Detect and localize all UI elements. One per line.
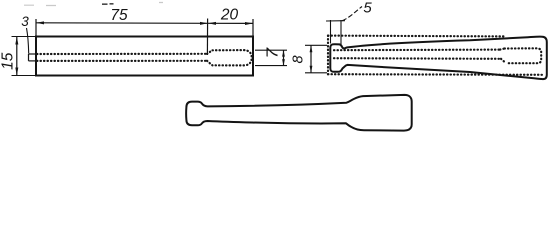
left view: hidden shaft line bottom [37, 60, 207, 62]
dimension 75/20: middle extension line [206, 19, 208, 56]
svg-text:8: 8 [291, 55, 307, 63]
dimension 20: dimension line [208, 22, 253, 24]
right view: hidden shaft line top [334, 48, 500, 51]
dimension 20: right extension line [252, 19, 254, 37]
dimension 8: dimension line [310, 45, 312, 73]
dimension 7: top arrowhead [282, 50, 285, 56]
dimension 5: dimension line [326, 20, 345, 22]
svg-text:20: 20 [220, 7, 239, 24]
dimension 3: leader line [27, 28, 29, 54]
right view: hidden knob flare bottom [501, 59, 506, 63]
dimension 7: top extension line [255, 49, 287, 51]
dimension 3: bottom tick [29, 60, 37, 62]
left view: hidden knob stadium [213, 50, 252, 65]
dimension 75: left arrowhead [36, 21, 44, 24]
dimension 75: left extension line (stock edge extended) [35, 19, 37, 37]
dimension 75: right arrowhead [200, 22, 208, 25]
dimension 7: bottom arrowhead [282, 59, 285, 65]
right view: hidden shaft line bottom [334, 57, 501, 60]
dimension 8: top arrowhead [310, 45, 313, 52]
right view: hidden knob flare top [500, 49, 505, 50]
dimension 15: bottom arrowhead [15, 68, 18, 76]
dimension 3: top tick [29, 53, 37, 55]
left view: hidden knob flare bottom [207, 61, 213, 66]
dimension 8: bottom arrowhead [310, 66, 313, 73]
scan artifact specks top [102, 3, 114, 5]
dimension 15: top extension line [12, 36, 37, 38]
dimension 5: right extension line [340, 20, 342, 46]
dimension 15: bottom extension line [12, 75, 37, 77]
right view: knob and taper solid outline [330, 37, 547, 79]
finished part outline [186, 95, 412, 131]
right view: stock hidden outline top [328, 34, 505, 37]
right view: stock hidden outline bottom [328, 73, 543, 76]
left view: stock bar outline [36, 37, 253, 76]
svg-text:3: 3 [21, 14, 29, 29]
dimension 7: dimension line [283, 50, 285, 65]
dimension 5: leader line [342, 7, 362, 21]
dimension 15: top arrowhead [15, 37, 18, 45]
dimension 8: top extension line [305, 44, 327, 46]
right view: stock hidden outline left [327, 36, 329, 75]
dimension 15: dimension line [16, 37, 18, 76]
left view: hidden shaft line top [37, 53, 207, 55]
svg-text:15: 15 [0, 52, 17, 70]
dimension 20: left arrowhead [208, 22, 216, 25]
svg-text:5: 5 [363, 0, 372, 17]
dimension 75: dimension line [36, 22, 208, 25]
left view: hidden knob flare top [207, 50, 213, 54]
svg-text:7: 7 [263, 47, 281, 59]
dimension 7: bottom extension line [255, 65, 287, 67]
svg-text:75: 75 [110, 7, 128, 24]
dimension 3: connector [28, 54, 30, 61]
dimension 8: bottom extension line [305, 72, 327, 74]
right view: hidden knob stadium [505, 48, 542, 63]
dimension 20: right arrowhead [245, 22, 253, 25]
dimension 5: left extension line [330, 20, 332, 44]
